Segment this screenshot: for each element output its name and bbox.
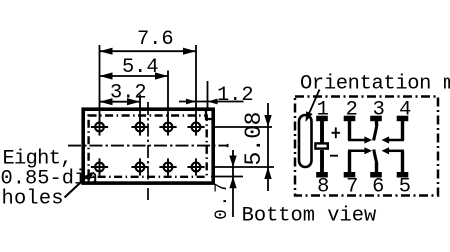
svg-text:Orientation mark: Orientation mark [300,73,450,96]
svg-text:8: 8 [317,175,329,198]
svg-text:5.08: 5.08 [241,112,267,166]
svg-text:7.6: 7.6 [137,28,174,51]
svg-text:0.7: 0.7 [212,182,232,220]
svg-text:Bottom view: Bottom view [242,205,377,228]
svg-text:1.2: 1.2 [217,84,254,107]
svg-text:5: 5 [399,175,411,198]
svg-text:5.4: 5.4 [122,56,159,79]
svg-text:6: 6 [372,175,384,198]
svg-text:holes: holes [2,188,64,211]
svg-text:3.2: 3.2 [110,81,147,104]
svg-text:7: 7 [346,175,358,198]
